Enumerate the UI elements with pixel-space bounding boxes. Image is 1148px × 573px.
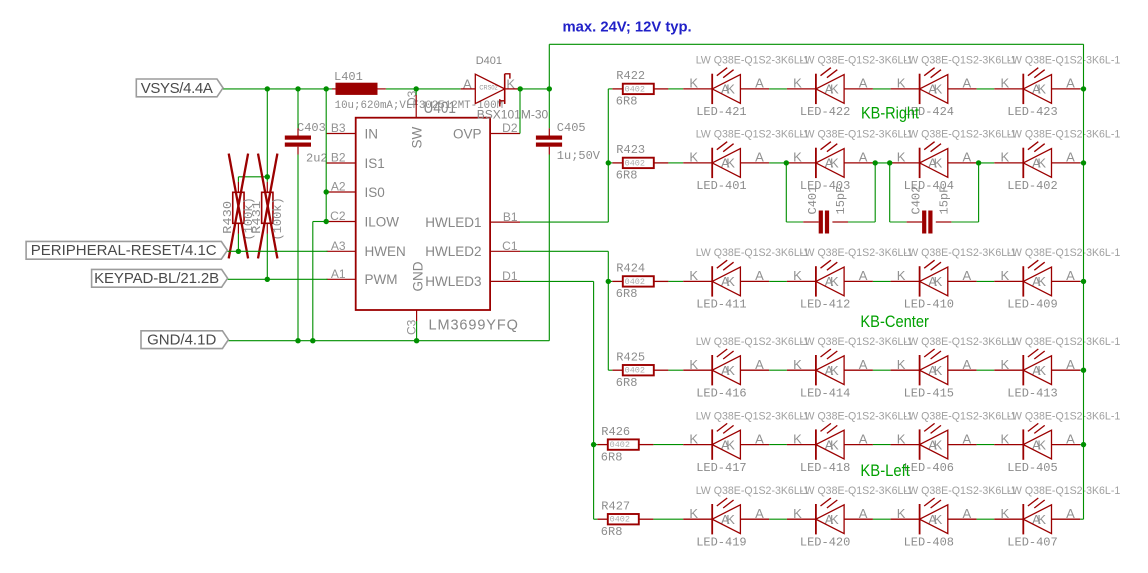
svg-text:C405: C405 bbox=[557, 121, 586, 135]
svg-text:K: K bbox=[1037, 156, 1046, 171]
svg-text:LED-405: LED-405 bbox=[1007, 461, 1057, 475]
svg-text:R424: R424 bbox=[616, 262, 645, 276]
svg-text:LED-408: LED-408 bbox=[904, 535, 954, 549]
svg-text:R422: R422 bbox=[616, 69, 645, 83]
svg-text:HWEN: HWEN bbox=[365, 244, 406, 259]
svg-text:K: K bbox=[934, 363, 943, 378]
svg-text:LED-415: LED-415 bbox=[904, 386, 954, 400]
svg-text:ILOW: ILOW bbox=[365, 214, 400, 229]
svg-text:K: K bbox=[830, 512, 839, 527]
svg-text:K: K bbox=[726, 512, 735, 527]
svg-text:HWLED2: HWLED2 bbox=[425, 244, 481, 259]
svg-text:LED-401: LED-401 bbox=[696, 179, 746, 193]
svg-text:LW Q38E-Q1S2-3K6L-1: LW Q38E-Q1S2-3K6L-1 bbox=[799, 55, 913, 67]
svg-text:LW Q38E-Q1S2-3K6L-1: LW Q38E-Q1S2-3K6L-1 bbox=[1007, 485, 1121, 497]
svg-text:0402: 0402 bbox=[625, 158, 645, 168]
svg-text:LW Q38E-Q1S2-3K6L-1: LW Q38E-Q1S2-3K6L-1 bbox=[903, 247, 1017, 259]
svg-text:LED-406: LED-406 bbox=[904, 461, 954, 475]
svg-text:LW Q38E-Q1S2-3K6L-1: LW Q38E-Q1S2-3K6L-1 bbox=[903, 336, 1017, 348]
svg-text:K: K bbox=[934, 156, 943, 171]
svg-text:LED-414: LED-414 bbox=[800, 386, 850, 400]
svg-text:R423: R423 bbox=[616, 143, 645, 157]
svg-text:KEYPAD-BL/21.2B: KEYPAD-BL/21.2B bbox=[94, 270, 219, 287]
svg-text:LW Q38E-Q1S2-3K6L-1: LW Q38E-Q1S2-3K6L-1 bbox=[799, 129, 913, 141]
svg-text:K: K bbox=[726, 274, 735, 289]
svg-text:LW Q38E-Q1S2-3K6L-1: LW Q38E-Q1S2-3K6L-1 bbox=[903, 410, 1017, 422]
svg-text:6R8: 6R8 bbox=[601, 525, 623, 539]
svg-text:K: K bbox=[726, 82, 735, 97]
svg-text:R430: R430 bbox=[221, 201, 235, 234]
svg-text:PERIPHERAL-RESET/4.1C: PERIPHERAL-RESET/4.1C bbox=[31, 242, 217, 259]
svg-text:C402: C402 bbox=[909, 186, 923, 215]
svg-text:K: K bbox=[1037, 274, 1046, 289]
svg-text:K: K bbox=[830, 274, 839, 289]
svg-text:BSX101M-30: BSX101M-30 bbox=[477, 108, 549, 122]
svg-text:LW Q38E-Q1S2-3K6L-1: LW Q38E-Q1S2-3K6L-1 bbox=[696, 336, 810, 348]
svg-text:R426: R426 bbox=[601, 425, 630, 439]
svg-text:0402: 0402 bbox=[625, 366, 645, 376]
svg-text:15pF: 15pF bbox=[937, 186, 951, 215]
svg-text:15pF: 15pF bbox=[834, 186, 848, 215]
svg-text:VSYS/4.4A: VSYS/4.4A bbox=[141, 80, 213, 97]
svg-text:LED-413: LED-413 bbox=[1007, 386, 1057, 400]
svg-text:C403: C403 bbox=[297, 121, 326, 135]
svg-text:LW Q38E-Q1S2-3K6L-1: LW Q38E-Q1S2-3K6L-1 bbox=[696, 485, 810, 497]
svg-text:LED-409: LED-409 bbox=[1007, 298, 1057, 312]
svg-text:GND/4.1D: GND/4.1D bbox=[147, 332, 216, 349]
svg-text:KB-Center: KB-Center bbox=[860, 312, 929, 331]
svg-text:LED-402: LED-402 bbox=[1007, 179, 1057, 193]
svg-text:2u2: 2u2 bbox=[306, 152, 328, 166]
svg-text:K: K bbox=[726, 437, 735, 452]
svg-text:GND: GND bbox=[411, 261, 426, 291]
svg-text:K: K bbox=[830, 82, 839, 97]
svg-text:K: K bbox=[830, 363, 839, 378]
svg-text:LW Q38E-Q1S2-3K6L-1: LW Q38E-Q1S2-3K6L-1 bbox=[1007, 129, 1121, 141]
svg-text:LED-423: LED-423 bbox=[1007, 105, 1057, 119]
svg-text:LW Q38E-Q1S2-3K6L-1: LW Q38E-Q1S2-3K6L-1 bbox=[696, 410, 810, 422]
svg-text:R427: R427 bbox=[601, 499, 630, 513]
svg-text:LED-422: LED-422 bbox=[800, 105, 850, 119]
svg-text:6R8: 6R8 bbox=[616, 287, 638, 301]
svg-text:K: K bbox=[1037, 437, 1046, 452]
svg-text:LW Q38E-Q1S2-3K6L-1: LW Q38E-Q1S2-3K6L-1 bbox=[1007, 247, 1121, 259]
svg-text:LED-410: LED-410 bbox=[904, 298, 954, 312]
svg-text:R425: R425 bbox=[616, 350, 645, 364]
svg-text:HWLED3: HWLED3 bbox=[425, 274, 481, 289]
svg-text:LM3699YFQ: LM3699YFQ bbox=[429, 318, 519, 334]
svg-text:LW Q38E-Q1S2-3K6L-1: LW Q38E-Q1S2-3K6L-1 bbox=[903, 55, 1017, 67]
svg-text:6R8: 6R8 bbox=[616, 376, 638, 390]
svg-text:D401: D401 bbox=[476, 55, 502, 67]
svg-text:K: K bbox=[934, 274, 943, 289]
svg-text:LW Q38E-Q1S2-3K6L-1: LW Q38E-Q1S2-3K6L-1 bbox=[903, 129, 1017, 141]
svg-text:K: K bbox=[726, 156, 735, 171]
svg-text:K: K bbox=[934, 82, 943, 97]
svg-text:KB-Right: KB-Right bbox=[861, 103, 919, 122]
svg-text:LED-412: LED-412 bbox=[800, 298, 850, 312]
svg-text:0402: 0402 bbox=[625, 84, 645, 94]
svg-text:LW Q38E-Q1S2-3K6L-1: LW Q38E-Q1S2-3K6L-1 bbox=[799, 336, 913, 348]
svg-text:K: K bbox=[726, 363, 735, 378]
svg-text:6R8: 6R8 bbox=[616, 95, 638, 109]
svg-text:LED-407: LED-407 bbox=[1007, 535, 1057, 549]
svg-text:LW Q38E-Q1S2-3K6L-1: LW Q38E-Q1S2-3K6L-1 bbox=[1007, 55, 1121, 67]
svg-text:R431: R431 bbox=[250, 201, 264, 234]
svg-text:IS1: IS1 bbox=[365, 156, 385, 171]
svg-text:C401: C401 bbox=[806, 186, 820, 215]
svg-text:K: K bbox=[934, 437, 943, 452]
svg-text:OVP: OVP bbox=[453, 126, 482, 141]
svg-text:K: K bbox=[1037, 512, 1046, 527]
svg-text:LED-416: LED-416 bbox=[696, 386, 746, 400]
svg-text:K: K bbox=[934, 512, 943, 527]
svg-text:1u;50V: 1u;50V bbox=[557, 149, 601, 163]
svg-text:0402: 0402 bbox=[610, 515, 630, 525]
svg-text:LW Q38E-Q1S2-3K6L-1: LW Q38E-Q1S2-3K6L-1 bbox=[696, 129, 810, 141]
svg-text:SW: SW bbox=[410, 126, 425, 148]
svg-text:LED-420: LED-420 bbox=[800, 535, 850, 549]
svg-text:6R8: 6R8 bbox=[601, 450, 623, 464]
svg-text:LED-418: LED-418 bbox=[800, 461, 850, 475]
svg-text:CRS02: CRS02 bbox=[479, 84, 498, 91]
svg-text:LW Q38E-Q1S2-3K6L-1: LW Q38E-Q1S2-3K6L-1 bbox=[696, 55, 810, 67]
svg-text:6R8: 6R8 bbox=[616, 169, 638, 183]
svg-text:IN: IN bbox=[365, 126, 379, 141]
svg-text:LED-421: LED-421 bbox=[696, 105, 746, 119]
svg-text:PWM: PWM bbox=[365, 272, 398, 287]
svg-text:max. 24V; 12V typ.: max. 24V; 12V typ. bbox=[563, 20, 692, 36]
svg-text:LW Q38E-Q1S2-3K6L-1: LW Q38E-Q1S2-3K6L-1 bbox=[799, 247, 913, 259]
svg-text:LW Q38E-Q1S2-3K6L-1: LW Q38E-Q1S2-3K6L-1 bbox=[903, 485, 1017, 497]
svg-text:LW Q38E-Q1S2-3K6L-1: LW Q38E-Q1S2-3K6L-1 bbox=[696, 247, 810, 259]
svg-text:LW Q38E-Q1S2-3K6L-1: LW Q38E-Q1S2-3K6L-1 bbox=[1007, 336, 1121, 348]
svg-text:LED-417: LED-417 bbox=[696, 461, 746, 475]
svg-text:LW Q38E-Q1S2-3K6L-1: LW Q38E-Q1S2-3K6L-1 bbox=[799, 485, 913, 497]
svg-text:K: K bbox=[1037, 82, 1046, 97]
svg-text:K: K bbox=[1037, 363, 1046, 378]
svg-text:L401: L401 bbox=[334, 70, 363, 84]
svg-text:LW Q38E-Q1S2-3K6L-1: LW Q38E-Q1S2-3K6L-1 bbox=[799, 410, 913, 422]
svg-text:IS0: IS0 bbox=[365, 185, 385, 200]
svg-text:LED-411: LED-411 bbox=[696, 298, 746, 312]
svg-text:LED-419: LED-419 bbox=[696, 535, 746, 549]
svg-text:KB-Left: KB-Left bbox=[860, 461, 910, 480]
svg-text:K: K bbox=[830, 437, 839, 452]
svg-text:K: K bbox=[830, 156, 839, 171]
svg-text:HWLED1: HWLED1 bbox=[425, 215, 481, 230]
svg-text:0402: 0402 bbox=[625, 277, 645, 287]
svg-text:0402: 0402 bbox=[610, 440, 630, 450]
svg-text:LW Q38E-Q1S2-3K6L-1: LW Q38E-Q1S2-3K6L-1 bbox=[1007, 410, 1121, 422]
